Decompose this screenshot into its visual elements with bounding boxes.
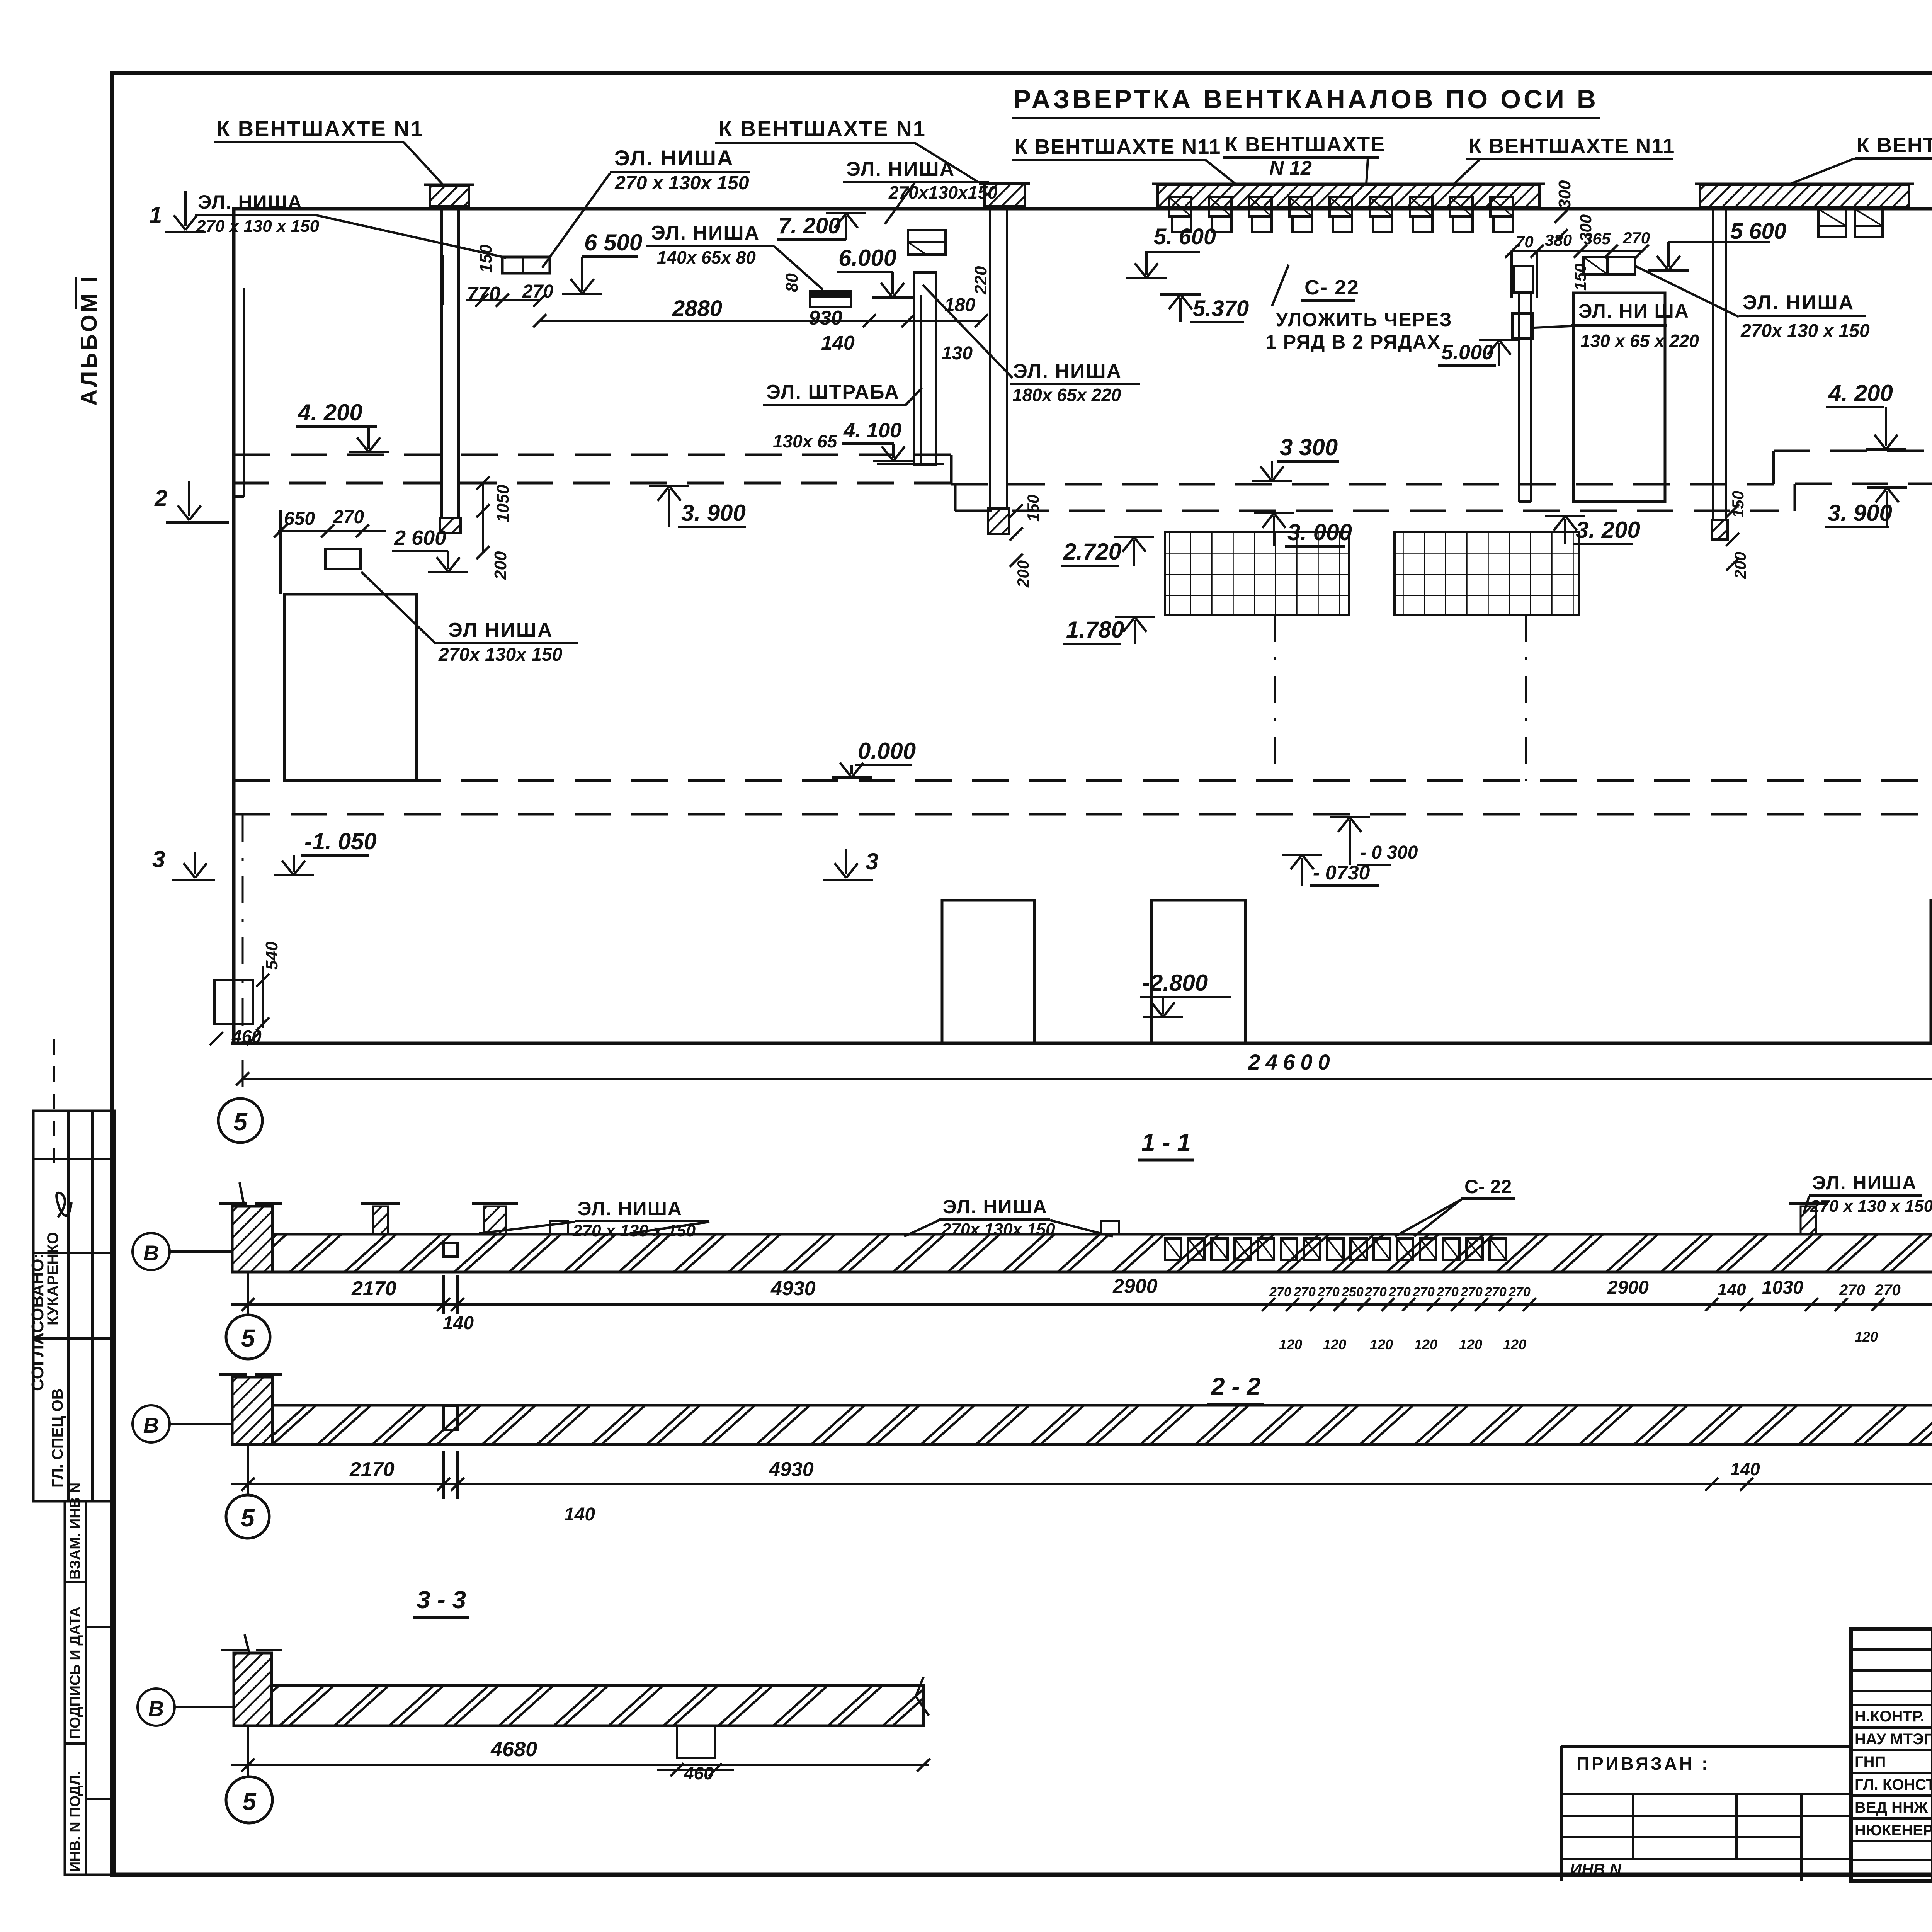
svg-text:1 РЯД В 2 РЯДАХ: 1 РЯД В 2 РЯДАХ: [1265, 331, 1441, 353]
svg-text:К ВЕНТШАХТЕ N10: К ВЕНТШАХТЕ N10: [1857, 134, 1932, 157]
svg-text:270: 270: [333, 507, 364, 527]
axis circle 5 top: [218, 1099, 262, 1143]
svg-text:220: 220: [971, 266, 990, 295]
svg-text:80: 80: [782, 273, 801, 292]
svg-text:НАУ МТЭП: НАУ МТЭП: [1855, 1731, 1932, 1748]
svg-text:- 0730: - 0730: [1313, 862, 1370, 884]
svg-text:140: 140: [443, 1313, 474, 1333]
vent cap over S2: [985, 184, 1025, 206]
svg-text:ЭЛ. НИША: ЭЛ. НИША: [846, 158, 955, 180]
section 2-2 dimension row: [231, 1483, 1932, 1485]
svg-text:120: 120: [1503, 1337, 1526, 1352]
svg-text:НЮКЕНЕР: НЮКЕНЕР: [1855, 1822, 1932, 1839]
section 2-2 left stub: [232, 1377, 272, 1444]
svg-text:3. 900: 3. 900: [1828, 500, 1892, 526]
svg-text:АЛЬБОМ I: АЛЬБОМ I: [77, 274, 102, 406]
svg-text:3. 000: 3. 000: [1287, 519, 1352, 545]
vent shaft S3: [1712, 207, 1714, 520]
svg-text:270: 270: [1484, 1285, 1507, 1299]
svg-text:-1. 050: -1. 050: [304, 828, 377, 854]
svg-text:270: 270: [1388, 1285, 1411, 1299]
svg-text:270: 270: [1412, 1285, 1435, 1299]
svg-text:270: 270: [1874, 1282, 1901, 1299]
svg-text:270: 270: [1622, 229, 1650, 247]
svg-text:200: 200: [491, 551, 510, 580]
svg-text:120: 120: [1279, 1337, 1302, 1352]
svg-text:ИНВ. N ПОДЛ.: ИНВ. N ПОДЛ.: [67, 1771, 83, 1872]
svg-text:ЭЛ. НИ ША: ЭЛ. НИ ША: [1578, 300, 1689, 322]
svg-text:ПРИВЯЗАН :: ПРИВЯЗАН :: [1577, 1753, 1710, 1774]
svg-text:5.370: 5.370: [1193, 296, 1249, 321]
shtraba 90x65 near R3: [1514, 266, 1533, 293]
svg-text:1: 1: [149, 202, 162, 228]
svg-text:150: 150: [1024, 495, 1042, 522]
big niche rect R1 lower-left: [284, 594, 417, 781]
sidebar lower stamp (Взам/Подпись/Инв): [65, 1501, 114, 1875]
ledge line 4.100: [877, 463, 944, 465]
svg-text:4930: 4930: [769, 1458, 814, 1481]
svg-text:930: 930: [809, 307, 842, 329]
svg-text:2 600: 2 600: [394, 526, 446, 549]
svg-text:ГЛ. КОНСТР: ГЛ. КОНСТР: [1855, 1776, 1932, 1793]
sidebar signature: [56, 1193, 71, 1217]
svg-text:ЭЛ. НИША: ЭЛ. НИША: [198, 191, 303, 213]
svg-text:3. 900: 3. 900: [681, 500, 746, 526]
svg-text:250: 250: [1341, 1285, 1364, 1299]
svg-text:270х 130х 150: 270х 130х 150: [438, 645, 563, 665]
section 1-1 left stub: [232, 1206, 272, 1272]
svg-text:180х 65х 220: 180х 65х 220: [1012, 385, 1121, 405]
section 3-3 wall band: [272, 1685, 923, 1726]
svg-text:270 х 130 х 150: 270 х 130 х 150: [572, 1221, 696, 1240]
svg-text:ЭЛ НИША: ЭЛ НИША: [448, 619, 553, 641]
dimension 24600: [243, 1078, 1932, 1080]
section 3-3 axis circle 5: [247, 1726, 249, 1777]
vent block assembly beam A2 (к вентшахте N10): [1700, 185, 1909, 207]
roof line: [234, 207, 1932, 211]
svg-text:К ВЕНТШАХТЕ N1: К ВЕНТШАХТЕ N1: [719, 116, 926, 141]
grid panel 1: [1165, 532, 1349, 615]
svg-text:5: 5: [241, 1504, 255, 1532]
niche box N7 lower-left: [325, 549, 361, 569]
left wall channel line: [243, 288, 245, 497]
svg-text:270: 270: [1839, 1282, 1865, 1299]
svg-text:270: 270: [1460, 1285, 1483, 1299]
svg-text:-2.800: -2.800: [1142, 970, 1208, 996]
svg-text:4680: 4680: [490, 1738, 537, 1761]
svg-text:5. 600: 5. 600: [1154, 224, 1216, 249]
svg-text:ВЗАМ. ИНВ N: ВЗАМ. ИНВ N: [67, 1483, 83, 1580]
svg-text:К ВЕНТШАХТЕ N11: К ВЕНТШАХТЕ N11: [1469, 134, 1675, 158]
svg-text:ЭЛ. НИША: ЭЛ. НИША: [1812, 1172, 1917, 1194]
svg-text:130х 65: 130х 65: [773, 431, 838, 451]
svg-text:120: 120: [1855, 1329, 1878, 1345]
title block row lines left: [1851, 1648, 1932, 1651]
svg-text:6.000: 6.000: [838, 245, 896, 271]
svg-text:4930: 4930: [770, 1277, 816, 1300]
svg-text:130 х 65 х 220: 130 х 65 х 220: [1580, 331, 1699, 351]
svg-text:650: 650: [284, 509, 315, 529]
fold mark dashes: [53, 1039, 55, 1163]
svg-text:С- 22: С- 22: [1304, 276, 1359, 299]
svg-text:270: 270: [1317, 1285, 1340, 1299]
svg-text:ИНВ N: ИНВ N: [1570, 1860, 1622, 1878]
mid shtraba 130x65: [914, 272, 936, 464]
svg-text:К ВЕНТШАХТЕ N11: К ВЕНТШАХТЕ N11: [1015, 135, 1221, 158]
basement bottom line: [231, 1042, 1932, 1045]
svg-text:150: 150: [476, 244, 495, 273]
svg-text:ГНП: ГНП: [1855, 1753, 1886, 1770]
svg-text:270 х 130 х 150: 270 х 130 х 150: [196, 217, 320, 236]
svg-text:365: 365: [1583, 230, 1611, 248]
basement doorway 3: [1931, 900, 1932, 1043]
svg-text:2880: 2880: [672, 296, 722, 321]
svg-text:3: 3: [866, 849, 878, 874]
section 1-1 vent boxes row: [1165, 1238, 1181, 1260]
section 1-1 axis circle 5 bottom: [247, 1272, 249, 1315]
svg-text:В: В: [143, 1241, 159, 1265]
svg-text:270х 130х 150: 270х 130х 150: [941, 1220, 1055, 1239]
section 1-1 niche notch small: [550, 1221, 568, 1234]
svg-text:В: В: [148, 1696, 164, 1721]
svg-text:4. 100: 4. 100: [843, 419, 901, 442]
dashed level line basement top: [234, 813, 1932, 816]
dashed level line 0.000: [234, 779, 1932, 782]
svg-text:5: 5: [242, 1787, 257, 1815]
svg-text:540: 540: [262, 941, 281, 970]
vent block assembly beam A1 (к вентшахте N11/N12): [1158, 185, 1539, 207]
section 1-1 dimension row: [231, 1303, 1932, 1306]
svg-text:С- 22: С- 22: [1464, 1176, 1512, 1197]
title block verticals left part: [1931, 1629, 1932, 1881]
svg-text:270 х 130х 150: 270 х 130х 150: [614, 172, 749, 194]
section 2-2 wall band: [272, 1405, 1932, 1444]
svg-text:ЭЛ. НИША: ЭЛ. НИША: [1743, 291, 1854, 314]
svg-text:270х130х150: 270х130х150: [888, 182, 998, 202]
svg-text:- 0 300: - 0 300: [1360, 842, 1418, 863]
svg-text:5.000: 5.000: [1441, 341, 1493, 364]
svg-text:N 12: N 12: [1269, 157, 1312, 179]
svg-text:ПОДПИСЬ И ДАТА: ПОДПИСЬ И ДАТА: [67, 1607, 83, 1739]
basement doorway 1: [942, 900, 1034, 1043]
section 1-1 axis circle В: [133, 1233, 170, 1270]
svg-text:КУКАРЕНКО: КУКАРЕНКО: [44, 1232, 61, 1325]
basement doorway 2: [1151, 900, 1245, 1043]
svg-text:140: 140: [1718, 1280, 1746, 1299]
svg-text:2900: 2900: [1607, 1277, 1649, 1298]
svg-text:270: 270: [1508, 1285, 1531, 1299]
svg-text:270: 270: [1293, 1285, 1316, 1299]
section 2-2 inner slot: [444, 1406, 457, 1430]
svg-text:4. 200: 4. 200: [298, 400, 362, 425]
niche box N5 square: [1513, 314, 1532, 338]
svg-text:140: 140: [821, 332, 855, 354]
svg-text:7. 200: 7. 200: [778, 213, 840, 238]
svg-text:130: 130: [942, 343, 973, 364]
svg-text:РАЗВЕРТКА ВЕНТКАНАЛОВ ПО ОС: РАЗВЕРТКА ВЕНТКАНАЛОВ ПО ОСИ В: [1014, 85, 1599, 114]
svg-text:Н.КОНТР.: Н.КОНТР.: [1855, 1708, 1925, 1725]
svg-text:200: 200: [1731, 552, 1749, 579]
niche box N4 365x270: [1583, 257, 1635, 274]
svg-text:5 600: 5 600: [1730, 219, 1786, 244]
svg-text:2170: 2170: [349, 1458, 395, 1481]
svg-text:270: 270: [1269, 1285, 1291, 1299]
svg-text:ЭЛ. НИША: ЭЛ. НИША: [1013, 360, 1122, 383]
svg-text:0.000: 0.000: [858, 738, 916, 764]
section 3-3 left stub: [234, 1653, 272, 1726]
svg-text:ЭЛ. НИША: ЭЛ. НИША: [578, 1198, 682, 1219]
svg-text:УЛОЖИТЬ ЧЕРЕЗ: УЛОЖИТЬ ЧЕРЕЗ: [1276, 309, 1452, 330]
svg-text:ЭЛ. НИША: ЭЛ. НИША: [943, 1196, 1048, 1218]
svg-text:770: 770: [467, 283, 500, 305]
dashed level line lower (3.900/3.000): [233, 482, 955, 485]
svg-text:6 500: 6 500: [584, 230, 642, 255]
svg-text:3. 200: 3. 200: [1576, 517, 1640, 543]
svg-text:К ВЕНТШАХТЕ: К ВЕНТШАХТЕ: [1225, 133, 1385, 156]
niche box N1 270x130x150 left pair: [502, 257, 550, 273]
vent shaft S2: [989, 207, 991, 509]
section 3-3 band break mark: [916, 1677, 923, 1696]
svg-text:5: 5: [241, 1324, 255, 1352]
svg-text:140: 140: [564, 1504, 595, 1525]
svg-text:70: 70: [1515, 233, 1534, 251]
svg-text:1 - 1: 1 - 1: [1141, 1128, 1191, 1156]
grid panel 2: [1395, 532, 1579, 615]
svg-text:140: 140: [1730, 1459, 1760, 1479]
basement pit left 540x460: [214, 980, 253, 1024]
sidebar upper stamp (Согласовано): [33, 1111, 114, 1501]
svg-text:К ВЕНТШАХТЕ N1: К ВЕНТШАХТЕ N1: [216, 116, 424, 141]
svg-text:24600: 24600: [1248, 1050, 1335, 1074]
svg-text:150: 150: [1571, 264, 1589, 291]
svg-text:ЭЛ. ШТРАБА: ЭЛ. ШТРАБА: [766, 381, 900, 403]
vent cap over S1: [430, 185, 469, 206]
svg-text:460: 460: [231, 1026, 262, 1046]
niche box N2 140x65x80: [810, 291, 851, 307]
svg-text:ЭЛ. НИША: ЭЛ. НИША: [614, 146, 734, 170]
big niche rect R3 middle 130x65x220: [1573, 293, 1665, 502]
svg-text:В: В: [143, 1413, 159, 1437]
title block outer: [1851, 1629, 1932, 1881]
axis dashed verticals under grids: [1274, 615, 1276, 781]
svg-text:120: 120: [1459, 1337, 1482, 1352]
svg-text:140х 65х 80: 140х 65х 80: [657, 247, 756, 267]
svg-text:2900: 2900: [1112, 1275, 1158, 1298]
svg-text:ГЛ. СПЕЦ ОВ: ГЛ. СПЕЦ ОВ: [49, 1388, 66, 1488]
svg-text:2 - 2: 2 - 2: [1211, 1372, 1260, 1400]
svg-text:3 300: 3 300: [1280, 434, 1338, 460]
svg-text:200: 200: [1014, 560, 1032, 588]
svg-text:3: 3: [152, 846, 165, 872]
section 2-2 axis circle В: [133, 1405, 170, 1442]
svg-text:270: 270: [1436, 1285, 1459, 1299]
section 1-1 inner square hole: [444, 1243, 457, 1257]
svg-text:120: 120: [1414, 1337, 1437, 1352]
dim line left group: [540, 320, 981, 322]
svg-text:270: 270: [522, 281, 553, 302]
svg-text:4. 200: 4. 200: [1828, 380, 1893, 406]
svg-text:ВЕД ННЖ: ВЕД ННЖ: [1855, 1799, 1928, 1816]
stacked vent boxes under beam A2: [1818, 209, 1846, 237]
svg-text:5: 5: [233, 1108, 248, 1136]
svg-text:120: 120: [1370, 1337, 1393, 1352]
svg-text:2170: 2170: [351, 1277, 396, 1300]
section 3-3 dimension row: [231, 1764, 929, 1766]
niche box N3 270x130x150: [908, 230, 946, 255]
dashed level line upper (4.200/3.300): [234, 454, 951, 456]
svg-text:120: 120: [1323, 1337, 1346, 1352]
svg-text:2.720: 2.720: [1063, 539, 1121, 565]
svg-text:ЭЛ. НИША: ЭЛ. НИША: [651, 222, 760, 244]
section 1-1 wall band: [272, 1234, 1932, 1272]
privyazan block: [1561, 1745, 1851, 1748]
vent channel boxes row under beam A1: [1169, 197, 1191, 216]
svg-text:270х 130 х 150: 270х 130 х 150: [1740, 321, 1870, 341]
svg-text:1050: 1050: [493, 485, 512, 522]
svg-text:380: 380: [1545, 231, 1572, 249]
svg-text:3 - 3: 3 - 3: [417, 1586, 466, 1614]
vent shaft S1 (к вентшахте N1 left): [440, 207, 443, 518]
svg-text:270: 270: [1364, 1285, 1387, 1299]
svg-text:1030: 1030: [1762, 1277, 1803, 1298]
section 1-1 stubs on band: [373, 1206, 388, 1234]
section 3-3 axis circle В: [138, 1689, 175, 1726]
axis line column 5 top: [242, 815, 244, 1099]
building left edge wall: [232, 207, 236, 1043]
svg-text:270 х 130 х 150: 270 х 130 х 150: [1810, 1197, 1932, 1216]
svg-text:2: 2: [154, 485, 167, 511]
svg-text:1.780: 1.780: [1066, 617, 1124, 643]
section 3-3 pit 460: [677, 1726, 715, 1758]
svg-text:300: 300: [1555, 180, 1574, 209]
section 2-2 axis circle 5 bottom: [247, 1444, 249, 1495]
